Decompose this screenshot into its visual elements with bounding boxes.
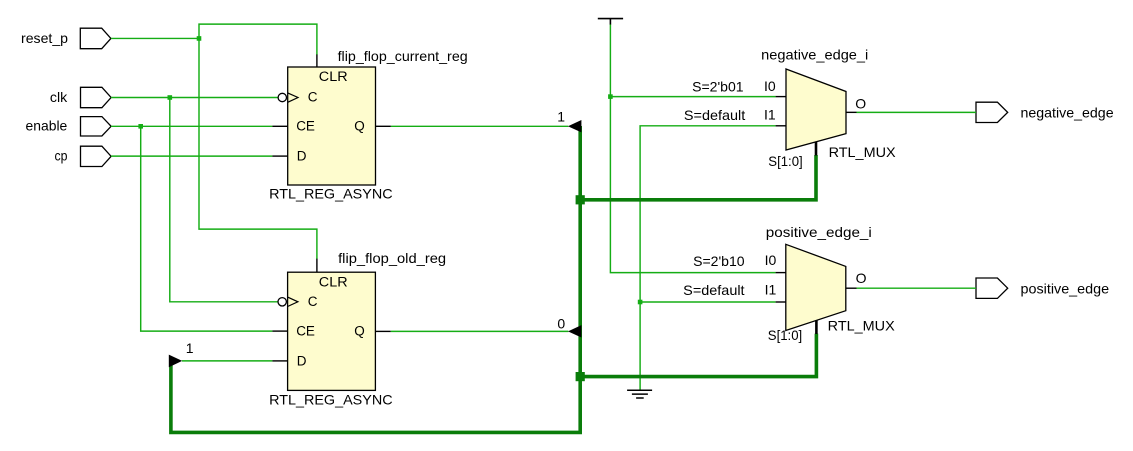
svg-text:CLR: CLR xyxy=(319,69,348,84)
svg-text:D: D xyxy=(297,149,307,164)
mux negative_edge_i body xyxy=(786,69,846,150)
svg-text:O: O xyxy=(856,270,867,286)
mux1 S pin stub xyxy=(815,142,818,156)
svg-text:D: D xyxy=(297,354,307,369)
input port clk xyxy=(50,87,111,107)
svg-text:I1: I1 xyxy=(764,107,776,123)
input port cp xyxy=(55,146,112,166)
wire VCC to mux2 I0 xyxy=(610,24,775,273)
wire enable to FF1 CE xyxy=(111,125,273,127)
svg-text:enable: enable xyxy=(26,118,68,134)
svg-text:S=default: S=default xyxy=(684,107,745,123)
ground symbol xyxy=(627,390,652,398)
svg-text:Q: Q xyxy=(354,323,365,338)
svg-text:RTL_REG_ASYNC: RTL_REG_ASYNC xyxy=(269,186,393,202)
power VCC symbol xyxy=(598,19,623,25)
wire bus bit1 arrow to FF2 D xyxy=(182,360,273,362)
svg-text:clk: clk xyxy=(50,89,68,105)
mux positive_edge_i body xyxy=(786,244,846,330)
svg-text:O: O xyxy=(855,96,866,112)
junction clk net xyxy=(168,95,173,100)
wire ground net to mux2 I1 xyxy=(640,301,776,303)
svg-text:I1: I1 xyxy=(765,281,777,297)
bus entry arrow bit 1 from FF1 Q xyxy=(568,120,581,132)
output port positive_edge xyxy=(976,278,1109,298)
FF1 CLR pin stub xyxy=(316,55,318,68)
junction VCC net xyxy=(608,94,613,99)
svg-text:negative_edge: negative_edge xyxy=(1021,104,1114,120)
mux1 O pin stub xyxy=(846,111,857,113)
svg-text:0: 0 xyxy=(557,315,565,331)
wire mux1 I1 to ground xyxy=(640,126,776,390)
svg-text:reset_p: reset_p xyxy=(21,30,68,46)
wire enable net to FF2 CE xyxy=(141,126,273,331)
FF1 Q pin stub xyxy=(376,125,391,127)
mux2 I1 pin stub xyxy=(776,301,786,303)
FF1 D pin stub xyxy=(272,155,287,157)
svg-text:C: C xyxy=(308,294,318,309)
wire clk net to FF2 C xyxy=(170,98,278,302)
wire FF2 Q to bus bit 0 xyxy=(391,330,569,332)
bus junction at mux1 branch xyxy=(576,195,585,204)
FF2 clock bubble xyxy=(278,298,286,306)
mux1 I1 pin stub xyxy=(776,125,786,127)
wire FF1 Q to bus bit 1 xyxy=(391,125,569,127)
FF1 CE pin stub xyxy=(272,125,287,127)
FF2 CE pin stub xyxy=(272,330,287,332)
flip-flop flip_flop_old_reg body xyxy=(288,272,376,390)
svg-text:S[1:0]: S[1:0] xyxy=(768,153,802,169)
svg-text:I0: I0 xyxy=(764,78,776,94)
svg-text:positive_edge_i: positive_edge_i xyxy=(766,224,872,240)
svg-text:CLR: CLR xyxy=(319,274,348,289)
svg-text:RTL_REG_ASYNC: RTL_REG_ASYNC xyxy=(269,391,393,407)
output port negative_edge xyxy=(976,102,1114,122)
bus junction at mux2 branch xyxy=(576,372,585,381)
FF2 D pin stub xyxy=(272,360,287,362)
wire cp to FF1 D xyxy=(111,155,273,157)
svg-text:positive_edge: positive_edge xyxy=(1021,281,1110,297)
bus exit arrow bit 1 to FF2 D xyxy=(169,355,182,368)
svg-text:1: 1 xyxy=(186,340,194,356)
svg-text:1: 1 xyxy=(557,108,565,124)
bus entry arrow bit 0 from FF2 Q xyxy=(568,325,581,337)
mux2 O pin stub xyxy=(846,287,857,289)
svg-text:flip_flop_old_reg: flip_flop_old_reg xyxy=(338,250,446,266)
mux1 I0 pin stub xyxy=(776,96,786,98)
FF1 clock bubble xyxy=(278,93,286,101)
mux2 S pin stub xyxy=(815,320,818,334)
svg-text:CE: CE xyxy=(296,118,315,133)
svg-text:cp: cp xyxy=(55,148,68,164)
bus S main trunk xyxy=(171,126,580,432)
svg-text:S=2'b01: S=2'b01 xyxy=(692,79,744,95)
svg-text:CE: CE xyxy=(296,323,315,338)
input port reset_p xyxy=(21,28,111,49)
svg-text:C: C xyxy=(308,90,318,105)
svg-text:Q: Q xyxy=(354,118,365,133)
junction enable net xyxy=(138,124,143,129)
junction ground net xyxy=(638,300,643,305)
svg-text:RTL_MUX: RTL_MUX xyxy=(828,318,896,334)
mux2 I0 pin stub xyxy=(776,272,786,274)
wire mux1 O to negative_edge xyxy=(857,111,977,113)
wire clk to FF1 C xyxy=(111,97,278,99)
wire reset_p to junction xyxy=(111,37,199,39)
input port enable xyxy=(26,117,112,136)
bus branch to mux1 S xyxy=(580,155,816,200)
wire reset net to FF1 CLR xyxy=(199,24,317,55)
svg-text:S=default: S=default xyxy=(683,282,744,298)
svg-text:S=2'b10: S=2'b10 xyxy=(693,253,745,269)
FF2 Q pin stub xyxy=(375,330,390,332)
bus branch to mux2 S xyxy=(580,334,816,377)
wire reset net to FF2 CLR xyxy=(199,38,317,259)
svg-text:RTL_MUX: RTL_MUX xyxy=(829,144,897,160)
svg-text:S[1:0]: S[1:0] xyxy=(768,327,802,343)
svg-text:I0: I0 xyxy=(765,252,777,268)
wire mux2 O to positive_edge xyxy=(857,287,977,289)
svg-text:flip_flop_current_reg: flip_flop_current_reg xyxy=(338,48,468,64)
FF2 CLR pin stub xyxy=(316,259,318,273)
flip-flop flip_flop_current_reg body xyxy=(288,67,376,185)
wire VCC net to mux1 I0 xyxy=(610,96,775,98)
svg-text:negative_edge_i: negative_edge_i xyxy=(761,47,868,63)
FF2 clock triangle xyxy=(288,297,298,306)
FF1 clock triangle xyxy=(288,93,298,102)
junction reset net xyxy=(197,36,202,41)
